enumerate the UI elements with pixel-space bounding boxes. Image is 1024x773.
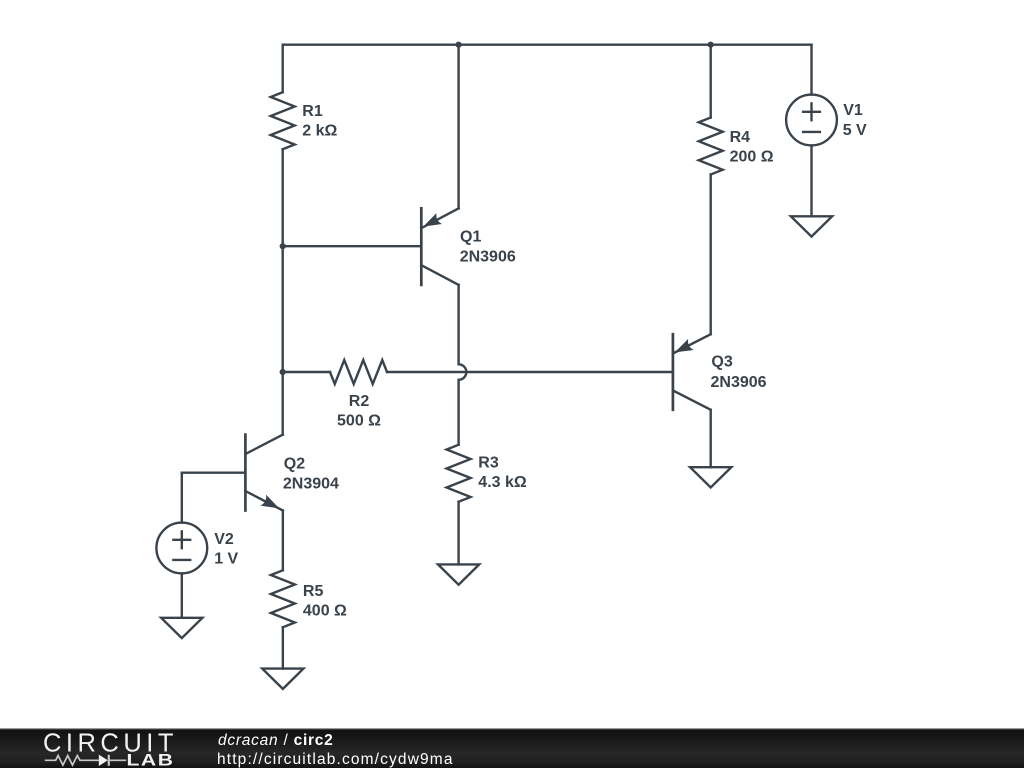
ground (under Q3 collector) (690, 467, 731, 487)
footer logo mini schematic wire (45, 755, 126, 766)
svg-text:2N3906: 2N3906 (460, 248, 516, 265)
svg-text:R2: R2 (349, 393, 370, 410)
svg-text:1 V: 1 V (214, 551, 238, 568)
svg-text:200 Ω: 200 Ω (730, 149, 774, 166)
svg-text:dcracan / circ2: dcracan / circ2 (218, 732, 334, 749)
wire Q2 emitter down to R5 (282, 511, 284, 571)
svg-text:400 Ω: 400 Ω (303, 603, 347, 620)
svg-text:R4: R4 (730, 129, 751, 146)
svg-text:2 kΩ: 2 kΩ (302, 123, 337, 140)
svg-text:2N3904: 2N3904 (283, 475, 339, 492)
svg-text:4.3 kΩ: 4.3 kΩ (478, 474, 527, 491)
junction dot top rail / Q1 emitter (456, 42, 462, 48)
wire left column R1 bottom to Q2 collector bend (282, 149, 284, 434)
resistor R5 (271, 570, 295, 627)
transistor Q2 (245, 435, 282, 511)
footer bar top highlight line (0, 728, 1024, 729)
junction dot Q1 base / left column (280, 243, 286, 249)
resistor R4 (699, 118, 723, 175)
svg-text:2N3906: 2N3906 (711, 374, 767, 391)
wire Q3 collector to ground (710, 410, 712, 467)
footer logo diode triangle (99, 755, 108, 766)
svg-text:V2: V2 (214, 531, 234, 548)
transistor Q1 (421, 208, 458, 285)
transistor Q3 emitter arrow (PNP, into base bar) (672, 339, 694, 358)
svg-text:R1: R1 (302, 103, 323, 120)
wire V2 top feed (181, 473, 183, 523)
svg-text:LAB: LAB (127, 752, 175, 768)
wire R2 right to Q3 base (387, 371, 673, 373)
ground (under V1) (791, 216, 832, 236)
wire V1 to ground (810, 145, 812, 216)
wire Q1 collector down with hop over R2 net (459, 285, 467, 445)
voltage source V1 (786, 95, 837, 146)
svg-text:500 Ω: 500 Ω (337, 413, 381, 430)
transistor Q1 emitter arrow (PNP, into base bar) (420, 213, 442, 232)
svg-text:R5: R5 (303, 583, 324, 600)
svg-text:Q3: Q3 (711, 354, 732, 371)
svg-text:R3: R3 (478, 455, 499, 472)
svg-text:V1: V1 (843, 102, 863, 119)
wire Q1 emitter up to top rail (457, 45, 459, 209)
wire left column (R1 top feed) (282, 45, 284, 92)
transistor Q2 emitter arrow (NPN, outward) (260, 495, 282, 514)
wire top rail (283, 44, 812, 46)
wire R4 top feed (710, 45, 712, 118)
footer bar (0, 728, 1024, 768)
footer logo mini schematic diode wire right (110, 759, 126, 761)
svg-text:http://circuitlab.com/cydw9ma: http://circuitlab.com/cydw9ma (217, 751, 454, 768)
junction dot top rail / R4 (708, 42, 714, 48)
svg-text:5 V: 5 V (843, 122, 867, 139)
wire Q1 base (283, 245, 422, 247)
voltage source V2 (156, 523, 207, 574)
svg-text:Q2: Q2 (284, 456, 305, 473)
transistor Q3 (673, 334, 711, 410)
wire R3 bottom to ground (457, 502, 459, 565)
svg-text:Q1: Q1 (460, 229, 481, 246)
ground (under R3) (438, 564, 479, 584)
ground (under R5) (262, 669, 303, 689)
wire V2 to ground (181, 573, 183, 617)
footer logo diode cathode bar (108, 755, 110, 766)
wire Q3 emitter up to R4 (710, 175, 712, 335)
wire R2 row: node to Q3 base (283, 371, 330, 373)
wire V1 top feed (810, 45, 812, 95)
ground (under V2) (161, 618, 202, 638)
wire R5 bottom to ground (282, 627, 284, 668)
resistor R2 (330, 360, 387, 384)
resistor R1 (271, 92, 295, 149)
wire Q2 base from V2 (182, 472, 246, 474)
resistor R3 (447, 445, 471, 502)
junction dot R2 / left column (280, 369, 286, 375)
